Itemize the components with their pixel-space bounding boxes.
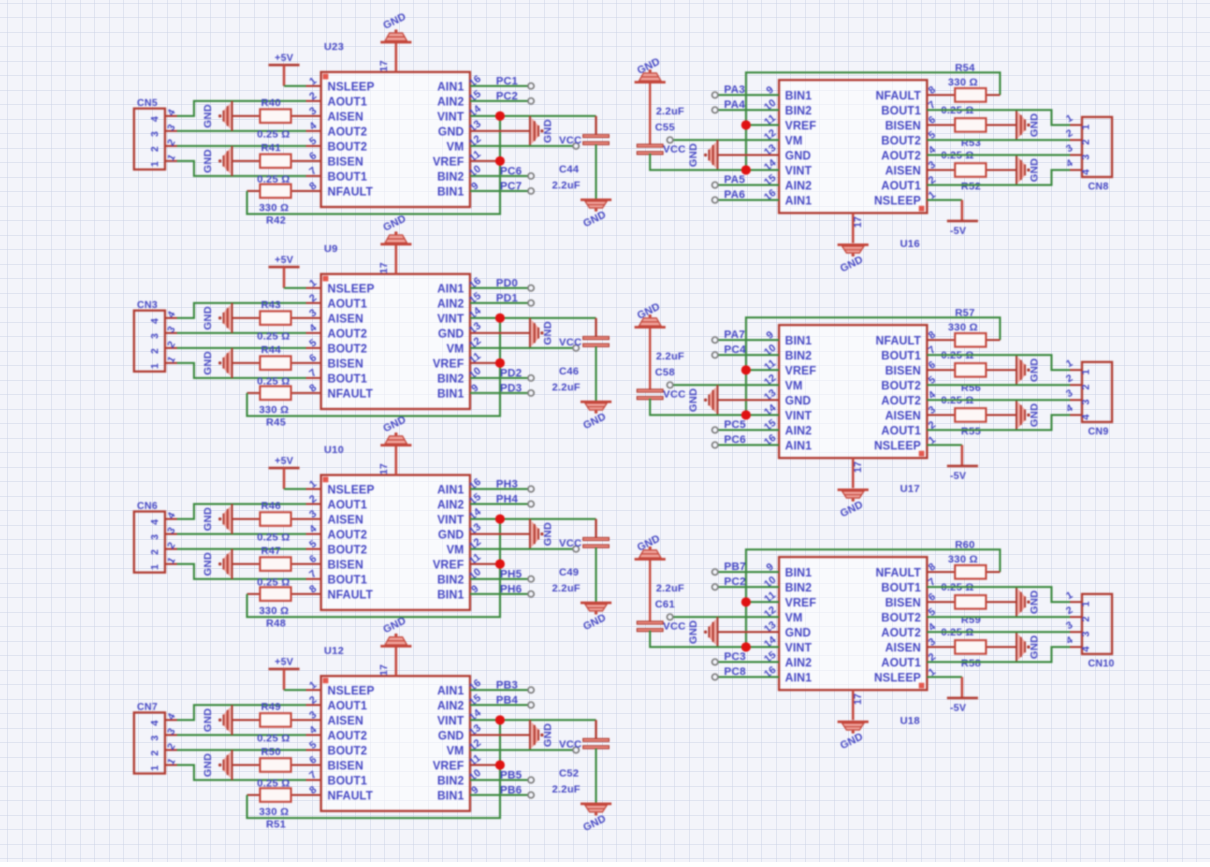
resistor R52 0.25 ohm bbox=[927, 150, 1016, 193]
resistor R48 330 ohm bbox=[247, 587, 306, 629]
svg-text:PD3: PD3 bbox=[500, 383, 522, 395]
resistor R59 0.25 ohm bbox=[927, 582, 1016, 627]
wire AOUT1 to CN8 pin4 bbox=[927, 170, 1070, 185]
svg-text:GND: GND bbox=[202, 104, 214, 128]
wire NFAULT loop via R54 bbox=[746, 73, 1000, 126]
svg-text:BOUT1: BOUT1 bbox=[328, 776, 368, 788]
svg-text:PD0: PD0 bbox=[496, 278, 518, 290]
svg-text:2.2uF: 2.2uF bbox=[552, 583, 581, 595]
svg-text:BOUT1: BOUT1 bbox=[328, 172, 368, 184]
svg-text:GND: GND bbox=[438, 530, 464, 542]
svg-text:3: 3 bbox=[1081, 154, 1092, 160]
svg-text:17: 17 bbox=[379, 463, 390, 475]
ground (BISEN sense) bbox=[1017, 110, 1041, 140]
wire VINT to capacitor bbox=[470, 317, 596, 319]
wire VM to VCC bbox=[671, 384, 779, 386]
svg-text:1: 1 bbox=[1081, 124, 1092, 130]
svg-text:AIN2: AIN2 bbox=[437, 299, 464, 311]
svg-text:AIN2: AIN2 bbox=[437, 97, 464, 109]
svg-text:VINT: VINT bbox=[437, 112, 464, 124]
svg-text:2: 2 bbox=[150, 549, 161, 555]
capacitor C52 2.2uF bbox=[552, 720, 609, 796]
svg-text:GND: GND bbox=[1029, 403, 1041, 427]
ground (top, pin 17) bbox=[379, 213, 412, 274]
capacitor C58 2.2uF bbox=[635, 301, 685, 400]
svg-text:NFAULT: NFAULT bbox=[876, 568, 921, 580]
ground (bottom, pin 17) bbox=[838, 458, 869, 520]
svg-text:17: 17 bbox=[853, 693, 864, 705]
wire VINT to capacitor bbox=[470, 719, 596, 721]
svg-text:VINT: VINT bbox=[437, 716, 464, 728]
capacitor C55 2.2uF bbox=[635, 56, 685, 155]
svg-text:2: 2 bbox=[1081, 616, 1092, 622]
wire CN pin1 to BOUT1 bbox=[177, 564, 306, 579]
wire BIN2 to net PD2 bbox=[470, 377, 530, 379]
resistor R58 0.25 ohm bbox=[927, 627, 1016, 670]
svg-text:PC8: PC8 bbox=[724, 666, 746, 678]
svg-text:VINT: VINT bbox=[437, 515, 464, 527]
svg-text:AOUT2: AOUT2 bbox=[881, 628, 921, 640]
svg-text:PB7: PB7 bbox=[724, 561, 746, 573]
wire BIN1 to net PB6 bbox=[470, 794, 530, 796]
ground (bottom, pin 17) bbox=[838, 690, 869, 752]
wire CN pin3 to AOUT2 bbox=[177, 332, 306, 334]
+5V power symbol bbox=[269, 657, 300, 690]
IC U18 motor driver bbox=[762, 557, 941, 727]
wire NFAULT loop to VINT/VREF bbox=[247, 318, 500, 416]
svg-text:VCC: VCC bbox=[559, 739, 582, 751]
connector CN5 bbox=[134, 98, 178, 170]
svg-text:VM: VM bbox=[785, 381, 803, 393]
junction VINT bbox=[495, 111, 505, 121]
svg-text:GND: GND bbox=[1029, 158, 1041, 182]
svg-text:NSLEEP: NSLEEP bbox=[328, 485, 375, 497]
svg-text:BISEN: BISEN bbox=[328, 560, 364, 572]
wire AIN2 to net PC2 bbox=[470, 100, 530, 102]
svg-text:U17: U17 bbox=[900, 483, 920, 495]
svg-text:NFAULT: NFAULT bbox=[328, 389, 373, 401]
svg-text:GND: GND bbox=[202, 552, 214, 576]
wire CN pin2 to BOUT2 bbox=[177, 347, 306, 349]
svg-text:+5V: +5V bbox=[275, 456, 294, 467]
wire NFAULT loop via R57 bbox=[746, 318, 1000, 371]
junction VREF bbox=[495, 358, 505, 368]
ground (GND pin 13) bbox=[688, 140, 780, 170]
svg-text:NFAULT: NFAULT bbox=[328, 590, 373, 602]
svg-text:1: 1 bbox=[150, 161, 161, 167]
svg-text:330 Ω: 330 Ω bbox=[259, 404, 289, 416]
resistor R46 0.25 ohm bbox=[232, 500, 306, 544]
svg-text:NFAULT: NFAULT bbox=[328, 791, 373, 803]
wire +5V to NSLEEP pin 1 bbox=[284, 85, 306, 87]
connector CN9 bbox=[1065, 358, 1112, 438]
connector CN3 bbox=[134, 300, 178, 372]
svg-text:GND: GND bbox=[542, 321, 554, 345]
svg-text:2: 2 bbox=[150, 750, 161, 756]
wire BIN1 to net PD3 bbox=[470, 392, 530, 394]
svg-text:CN3: CN3 bbox=[137, 300, 158, 311]
wire AIN1 to net PC1 bbox=[470, 85, 530, 87]
junction VREF bbox=[741, 597, 751, 607]
wire NFAULT loop to VINT/VREF bbox=[247, 116, 500, 214]
wire VREF junction to VINT junction bbox=[745, 370, 747, 415]
wire BIN1 to net PH6 bbox=[470, 593, 530, 595]
svg-text:AIN1: AIN1 bbox=[785, 441, 812, 453]
ground (bottom, pin 17) bbox=[838, 213, 869, 275]
wire VM to VCC bbox=[470, 749, 575, 751]
ground (AISEN sense) bbox=[1017, 155, 1041, 185]
svg-text:PC2: PC2 bbox=[496, 91, 518, 103]
resistor R40 0.25 ohm bbox=[232, 97, 306, 141]
svg-text:PD2: PD2 bbox=[500, 368, 522, 380]
svg-text:2: 2 bbox=[1081, 139, 1092, 145]
svg-text:U12: U12 bbox=[324, 645, 344, 657]
svg-text:C46: C46 bbox=[559, 366, 579, 378]
resistor R50 0.25 ohm bbox=[232, 746, 306, 790]
svg-text:VM: VM bbox=[785, 136, 803, 148]
wire VINT to capacitor bbox=[470, 518, 596, 520]
ground (GND pin 13) bbox=[688, 385, 780, 415]
svg-text:4: 4 bbox=[150, 720, 161, 726]
svg-text:BIN2: BIN2 bbox=[785, 351, 812, 363]
svg-text:BIN2: BIN2 bbox=[437, 575, 464, 587]
svg-text:PC1: PC1 bbox=[496, 76, 518, 88]
resistor R51 330 ohm bbox=[247, 788, 306, 830]
svg-text:GND: GND bbox=[438, 329, 464, 341]
svg-text:GND: GND bbox=[202, 351, 214, 375]
svg-text:VCC: VCC bbox=[663, 389, 686, 401]
svg-text:2.2uF: 2.2uF bbox=[656, 351, 685, 363]
svg-text:GND: GND bbox=[202, 507, 214, 531]
svg-text:BIN2: BIN2 bbox=[437, 374, 464, 386]
connector CN6 bbox=[134, 501, 178, 573]
svg-text:3: 3 bbox=[1081, 399, 1092, 405]
ground (BISEN sense) bbox=[202, 750, 232, 780]
svg-text:GND: GND bbox=[438, 731, 464, 743]
wire AIN1 to net PD0 bbox=[470, 287, 530, 289]
svg-text:BIN1: BIN1 bbox=[785, 91, 812, 103]
svg-text:CN6: CN6 bbox=[137, 501, 158, 512]
svg-text:BIN1: BIN1 bbox=[437, 389, 464, 401]
ground (AISEN sense) bbox=[202, 705, 232, 735]
svg-text:BISEN: BISEN bbox=[328, 359, 364, 371]
svg-text:AOUT1: AOUT1 bbox=[881, 426, 921, 438]
wire NFAULT loop via R60 bbox=[746, 550, 1000, 603]
svg-text:BIN2: BIN2 bbox=[785, 106, 812, 118]
wire CN pin3 to AOUT2 bbox=[177, 533, 306, 535]
wire CN pin4 to AOUT1 bbox=[177, 504, 306, 519]
svg-text:BIN1: BIN1 bbox=[437, 590, 464, 602]
svg-text:R59: R59 bbox=[961, 614, 981, 626]
wire AIN2 to net PD1 bbox=[470, 302, 530, 304]
svg-text:R49: R49 bbox=[261, 701, 281, 713]
wire BIN2 to net PH5 bbox=[470, 578, 530, 580]
svg-text:4: 4 bbox=[1081, 414, 1092, 420]
svg-text:C58: C58 bbox=[655, 367, 675, 379]
ground (BISEN sense) bbox=[202, 348, 232, 378]
junction VINT bbox=[741, 410, 751, 420]
svg-text:2.2uF: 2.2uF bbox=[552, 180, 581, 192]
svg-text:AOUT2: AOUT2 bbox=[328, 329, 368, 341]
wire net PC6 bbox=[716, 444, 779, 446]
svg-text:NSLEEP: NSLEEP bbox=[874, 673, 921, 685]
resistor R57 330 ohm bbox=[927, 307, 1000, 347]
svg-text:GND: GND bbox=[785, 628, 811, 640]
svg-text:PC6: PC6 bbox=[500, 166, 522, 178]
wire CN pin4 to AOUT1 bbox=[177, 101, 306, 116]
svg-text:AOUT1: AOUT1 bbox=[328, 701, 368, 713]
ground (AISEN sense) bbox=[1017, 400, 1041, 430]
wire capacitor to VINT bbox=[650, 631, 779, 648]
svg-text:BOUT1: BOUT1 bbox=[881, 106, 921, 118]
-5V power symbol bbox=[927, 445, 978, 482]
wire AOUT2 to CN8 pin3 bbox=[927, 154, 1070, 156]
resistor R44 0.25 ohm bbox=[232, 344, 306, 388]
svg-text:GND: GND bbox=[542, 723, 554, 747]
svg-text:3: 3 bbox=[150, 131, 161, 137]
svg-text:R40: R40 bbox=[261, 97, 281, 109]
svg-text:4: 4 bbox=[150, 318, 161, 324]
svg-text:AIN1: AIN1 bbox=[437, 284, 464, 296]
svg-text:PH6: PH6 bbox=[500, 584, 522, 596]
svg-text:GND: GND bbox=[1029, 113, 1041, 137]
capacitor C49 2.2uF bbox=[552, 519, 609, 595]
svg-text:R44: R44 bbox=[261, 344, 281, 356]
svg-text:AOUT1: AOUT1 bbox=[328, 500, 368, 512]
IC U9 motor driver bbox=[306, 243, 485, 409]
svg-text:PC5: PC5 bbox=[724, 419, 746, 431]
resistor R45 330 ohm bbox=[247, 386, 306, 428]
wire VM to VCC bbox=[671, 139, 779, 141]
svg-text:VREF: VREF bbox=[433, 157, 464, 169]
svg-text:BOUT2: BOUT2 bbox=[328, 142, 368, 154]
svg-text:VREF: VREF bbox=[433, 560, 464, 572]
svg-text:PC4: PC4 bbox=[724, 344, 747, 356]
junction VINT bbox=[495, 514, 505, 524]
svg-text:CN5: CN5 bbox=[137, 98, 158, 109]
svg-text:BISEN: BISEN bbox=[885, 366, 921, 378]
svg-text:U9: U9 bbox=[324, 243, 338, 255]
svg-text:17: 17 bbox=[379, 262, 390, 274]
svg-text:AOUT2: AOUT2 bbox=[328, 530, 368, 542]
wire VM to VCC bbox=[470, 347, 575, 349]
svg-text:GND: GND bbox=[542, 522, 554, 546]
svg-text:BIN2: BIN2 bbox=[437, 172, 464, 184]
svg-text:BOUT1: BOUT1 bbox=[881, 351, 921, 363]
svg-text:PB6: PB6 bbox=[500, 785, 522, 797]
svg-text:R53: R53 bbox=[961, 137, 981, 149]
wire CN pin1 to BOUT1 bbox=[177, 363, 306, 378]
svg-text:BOUT1: BOUT1 bbox=[328, 374, 368, 386]
wire AOUT1 to CN10 pin4 bbox=[927, 647, 1070, 662]
svg-text:VINT: VINT bbox=[785, 166, 812, 178]
wire BOUT2 to CN8 pin2 bbox=[927, 139, 1070, 141]
wire VREF to junction bbox=[470, 362, 500, 364]
svg-text:R54: R54 bbox=[955, 62, 975, 74]
svg-text:VM: VM bbox=[446, 142, 464, 154]
svg-text:R48: R48 bbox=[266, 618, 286, 630]
svg-text:BISEN: BISEN bbox=[328, 157, 364, 169]
svg-text:BOUT2: BOUT2 bbox=[328, 545, 368, 557]
svg-text:C44: C44 bbox=[559, 164, 579, 176]
ground (GND pin 13) bbox=[470, 720, 554, 750]
svg-text:R41: R41 bbox=[261, 142, 281, 154]
ground (below capacitor) bbox=[581, 602, 612, 633]
svg-text:AIN2: AIN2 bbox=[437, 500, 464, 512]
svg-text:PA6: PA6 bbox=[724, 189, 745, 201]
svg-text:BOUT1: BOUT1 bbox=[328, 575, 368, 587]
svg-text:C49: C49 bbox=[559, 567, 579, 579]
svg-text:CN8: CN8 bbox=[1088, 182, 1109, 193]
svg-text:AISEN: AISEN bbox=[885, 166, 921, 178]
svg-text:BIN1: BIN1 bbox=[437, 791, 464, 803]
svg-text:VM: VM bbox=[446, 545, 464, 557]
IC U23 motor driver bbox=[306, 41, 485, 207]
svg-text:GND: GND bbox=[688, 143, 700, 167]
wire net PA5 bbox=[716, 184, 779, 186]
wire capacitor to VINT bbox=[650, 154, 779, 171]
ground (GND pin 13) bbox=[470, 519, 554, 549]
junction VREF bbox=[495, 760, 505, 770]
+5V power symbol bbox=[269, 456, 300, 489]
svg-text:VINT: VINT bbox=[437, 314, 464, 326]
svg-text:330 Ω: 330 Ω bbox=[948, 77, 978, 89]
svg-text:BIN2: BIN2 bbox=[785, 583, 812, 595]
svg-text:AIN1: AIN1 bbox=[785, 673, 812, 685]
connector CN8 bbox=[1065, 113, 1112, 193]
svg-text:VREF: VREF bbox=[785, 121, 816, 133]
junction VINT bbox=[495, 715, 505, 725]
wire net PC5 bbox=[716, 429, 779, 431]
svg-text:AISEN: AISEN bbox=[885, 411, 921, 423]
junction VINT bbox=[741, 642, 751, 652]
svg-text:3: 3 bbox=[150, 333, 161, 339]
wire net PA6 bbox=[716, 199, 779, 201]
ground (top, pin 17) bbox=[379, 615, 412, 676]
svg-text:VREF: VREF bbox=[433, 761, 464, 773]
wire AIN1 to net PH3 bbox=[470, 488, 530, 490]
svg-text:GND: GND bbox=[785, 151, 811, 163]
svg-text:1: 1 bbox=[150, 363, 161, 369]
svg-text:PH4: PH4 bbox=[496, 494, 519, 506]
svg-text:VREF: VREF bbox=[785, 598, 816, 610]
resistor R41 0.25 ohm bbox=[232, 142, 306, 186]
ground (BISEN sense) bbox=[202, 549, 232, 579]
ground (BISEN sense) bbox=[1017, 587, 1041, 617]
ground (below capacitor) bbox=[581, 199, 612, 230]
connector CN10 bbox=[1065, 590, 1115, 670]
wire net PC3 bbox=[716, 661, 779, 663]
svg-text:330 Ω: 330 Ω bbox=[259, 202, 289, 214]
wire CN pin4 to AOUT1 bbox=[177, 705, 306, 720]
svg-text:AIN2: AIN2 bbox=[785, 426, 812, 438]
junction VREF bbox=[741, 120, 751, 130]
svg-text:CN7: CN7 bbox=[137, 702, 158, 713]
svg-text:330 Ω: 330 Ω bbox=[948, 322, 978, 334]
svg-text:AOUT2: AOUT2 bbox=[328, 127, 368, 139]
wire NFAULT loop to VINT/VREF bbox=[247, 519, 500, 617]
connector CN7 bbox=[134, 702, 178, 774]
svg-text:VINT: VINT bbox=[785, 643, 812, 655]
wire BOUT2 to CN9 pin2 bbox=[927, 384, 1070, 386]
wire net PB7 bbox=[716, 571, 779, 573]
svg-text:AIN2: AIN2 bbox=[785, 181, 812, 193]
svg-text:NSLEEP: NSLEEP bbox=[874, 196, 921, 208]
wire VREF to pin bbox=[746, 369, 779, 371]
+5V power symbol bbox=[269, 255, 300, 288]
svg-text:PB4: PB4 bbox=[496, 695, 519, 707]
svg-text:+5V: +5V bbox=[275, 53, 294, 64]
svg-text:U16: U16 bbox=[900, 238, 920, 250]
svg-text:U10: U10 bbox=[324, 444, 344, 456]
wire net PC2 bbox=[716, 586, 779, 588]
svg-text:BOUT2: BOUT2 bbox=[881, 136, 921, 148]
resistor R60 330 ohm bbox=[927, 539, 1000, 579]
svg-text:C52: C52 bbox=[559, 768, 579, 780]
wire VREF to junction bbox=[470, 764, 500, 766]
svg-text:AOUT2: AOUT2 bbox=[881, 151, 921, 163]
wire CN pin3 to AOUT2 bbox=[177, 734, 306, 736]
resistor R56 0.25 ohm bbox=[927, 350, 1016, 395]
svg-text:BIN1: BIN1 bbox=[437, 187, 464, 199]
svg-text:AISEN: AISEN bbox=[328, 112, 364, 124]
svg-text:PB5: PB5 bbox=[500, 770, 522, 782]
svg-text:BIN2: BIN2 bbox=[437, 776, 464, 788]
wire net PA4 bbox=[716, 109, 779, 111]
wire BOUT1 to CN10 pin1 bbox=[927, 587, 1070, 602]
svg-text:4: 4 bbox=[1081, 169, 1092, 175]
wire AIN1 to net PB3 bbox=[470, 689, 530, 691]
wire capacitor to ground bbox=[595, 749, 597, 804]
wire capacitor to ground bbox=[595, 347, 597, 402]
svg-text:R50: R50 bbox=[261, 746, 281, 758]
svg-text:PC2: PC2 bbox=[724, 576, 746, 588]
svg-text:C55: C55 bbox=[655, 122, 675, 134]
wire AOUT2 to CN10 pin3 bbox=[927, 631, 1070, 633]
svg-text:R46: R46 bbox=[261, 500, 281, 512]
svg-text:R60: R60 bbox=[955, 539, 975, 551]
svg-text:BOUT2: BOUT2 bbox=[328, 746, 368, 758]
svg-text:PA4: PA4 bbox=[724, 99, 746, 111]
ground (top, pin 17) bbox=[379, 414, 412, 475]
svg-text:GND: GND bbox=[542, 119, 554, 143]
svg-text:-5V: -5V bbox=[950, 703, 966, 714]
svg-text:BIN1: BIN1 bbox=[785, 568, 812, 580]
-5V power symbol bbox=[927, 200, 978, 237]
wire BIN2 to net PC6 bbox=[470, 175, 530, 177]
svg-text:AOUT2: AOUT2 bbox=[881, 396, 921, 408]
svg-text:-5V: -5V bbox=[950, 226, 966, 237]
svg-text:AISEN: AISEN bbox=[885, 643, 921, 655]
resistor R49 0.25 ohm bbox=[232, 701, 306, 745]
wire CN pin4 to AOUT1 bbox=[177, 303, 306, 318]
svg-text:BOUT2: BOUT2 bbox=[881, 381, 921, 393]
svg-text:PC7: PC7 bbox=[500, 181, 522, 193]
resistor R42 330 ohm bbox=[247, 184, 306, 226]
ground (AISEN sense) bbox=[202, 504, 232, 534]
wire AOUT1 to CN9 pin4 bbox=[927, 415, 1070, 430]
svg-text:2: 2 bbox=[150, 146, 161, 152]
svg-text:VCC: VCC bbox=[559, 337, 582, 349]
svg-text:330 Ω: 330 Ω bbox=[948, 554, 978, 566]
svg-text:17: 17 bbox=[379, 60, 390, 72]
svg-text:R42: R42 bbox=[266, 215, 286, 227]
svg-text:NSLEEP: NSLEEP bbox=[328, 82, 375, 94]
svg-text:1: 1 bbox=[150, 564, 161, 570]
svg-text:17: 17 bbox=[379, 664, 390, 676]
ground (top, pin 17) bbox=[379, 11, 412, 72]
wire +5V to NSLEEP pin 1 bbox=[284, 689, 306, 691]
